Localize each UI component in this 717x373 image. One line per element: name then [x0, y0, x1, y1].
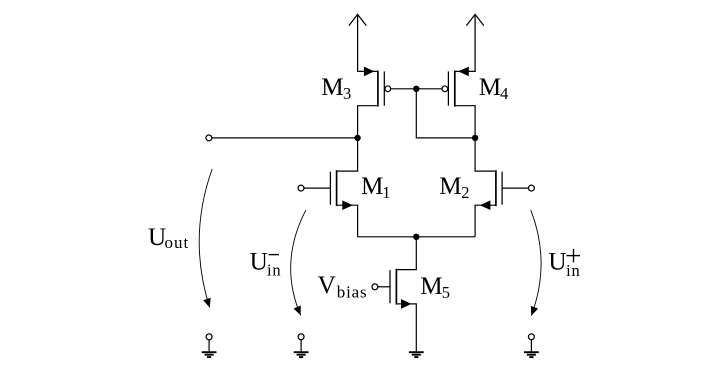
label Uin+ [548, 249, 580, 281]
svg-text:U: U [148, 224, 166, 251]
transistor M1 (NMOS) [330, 170, 357, 210]
transistor M2 (NMOS) [475, 170, 502, 210]
ground M5 [409, 352, 424, 357]
label Vbias [318, 272, 368, 302]
ground terminal Uin- [294, 334, 309, 357]
arrow Uin- [291, 210, 306, 315]
supply arrow VDD left [349, 14, 366, 72]
ground terminal Uout [202, 334, 217, 357]
svg-text:1: 1 [382, 183, 390, 202]
svg-text:M: M [361, 173, 383, 200]
wire gate M4 to junction [416, 88, 442, 90]
ground terminal Uin+ [524, 334, 539, 357]
wire gate M3 to junction [391, 88, 417, 90]
svg-text:M: M [439, 173, 461, 200]
svg-text:M: M [420, 273, 442, 300]
terminal M5 gate (Vbias) [372, 284, 378, 290]
svg-text:5: 5 [442, 283, 450, 302]
wire M5 gate [378, 286, 390, 288]
wire left branch (M3 drain to M1 drain) [357, 106, 359, 171]
svg-text:in: in [267, 260, 281, 279]
wire diode connection (gate junction to M4 drain) [416, 89, 475, 138]
wire M1 gate [304, 187, 331, 189]
label M4 [479, 74, 509, 103]
svg-text:U: U [548, 249, 566, 276]
label M1 [361, 173, 390, 202]
terminal output [206, 135, 212, 141]
svg-text:V: V [318, 272, 336, 299]
svg-text:4: 4 [500, 84, 508, 103]
label Uin- [250, 248, 282, 279]
wire M2 source down [474, 205, 476, 237]
svg-text:M: M [479, 74, 501, 101]
wire tail to M5 drain [415, 237, 417, 270]
svg-text:2: 2 [461, 183, 469, 202]
label Uout [148, 224, 189, 252]
node gate junction [413, 86, 419, 92]
node tail [413, 234, 419, 240]
transistor M5 (NMOS) [390, 269, 416, 309]
wire right branch (M4 drain to M2 drain) [474, 106, 476, 171]
wire tail [358, 236, 476, 238]
terminal M2 gate [528, 185, 534, 191]
node output [354, 135, 360, 141]
svg-text:M: M [321, 74, 343, 101]
svg-text:in: in [566, 261, 580, 280]
wire output [212, 137, 358, 139]
node right branch [472, 135, 478, 141]
wire M2 gate [502, 187, 528, 189]
arrow Uout [199, 169, 212, 308]
transistor M4 (PMOS) [442, 67, 475, 107]
arrow Uin+ [531, 210, 541, 316]
wire M5 source down [415, 304, 417, 352]
label M2 [439, 173, 469, 202]
supply arrow VDD right [467, 14, 484, 72]
svg-text:U: U [250, 248, 268, 275]
label M3 [321, 74, 351, 103]
terminal M1 gate [298, 185, 304, 191]
svg-text:out: out [165, 233, 190, 252]
label M5 [420, 273, 450, 302]
transistor M3 (PMOS) [358, 67, 391, 107]
wire M1 source down [357, 205, 359, 237]
svg-text:3: 3 [343, 84, 351, 103]
svg-text:bias: bias [337, 283, 368, 302]
